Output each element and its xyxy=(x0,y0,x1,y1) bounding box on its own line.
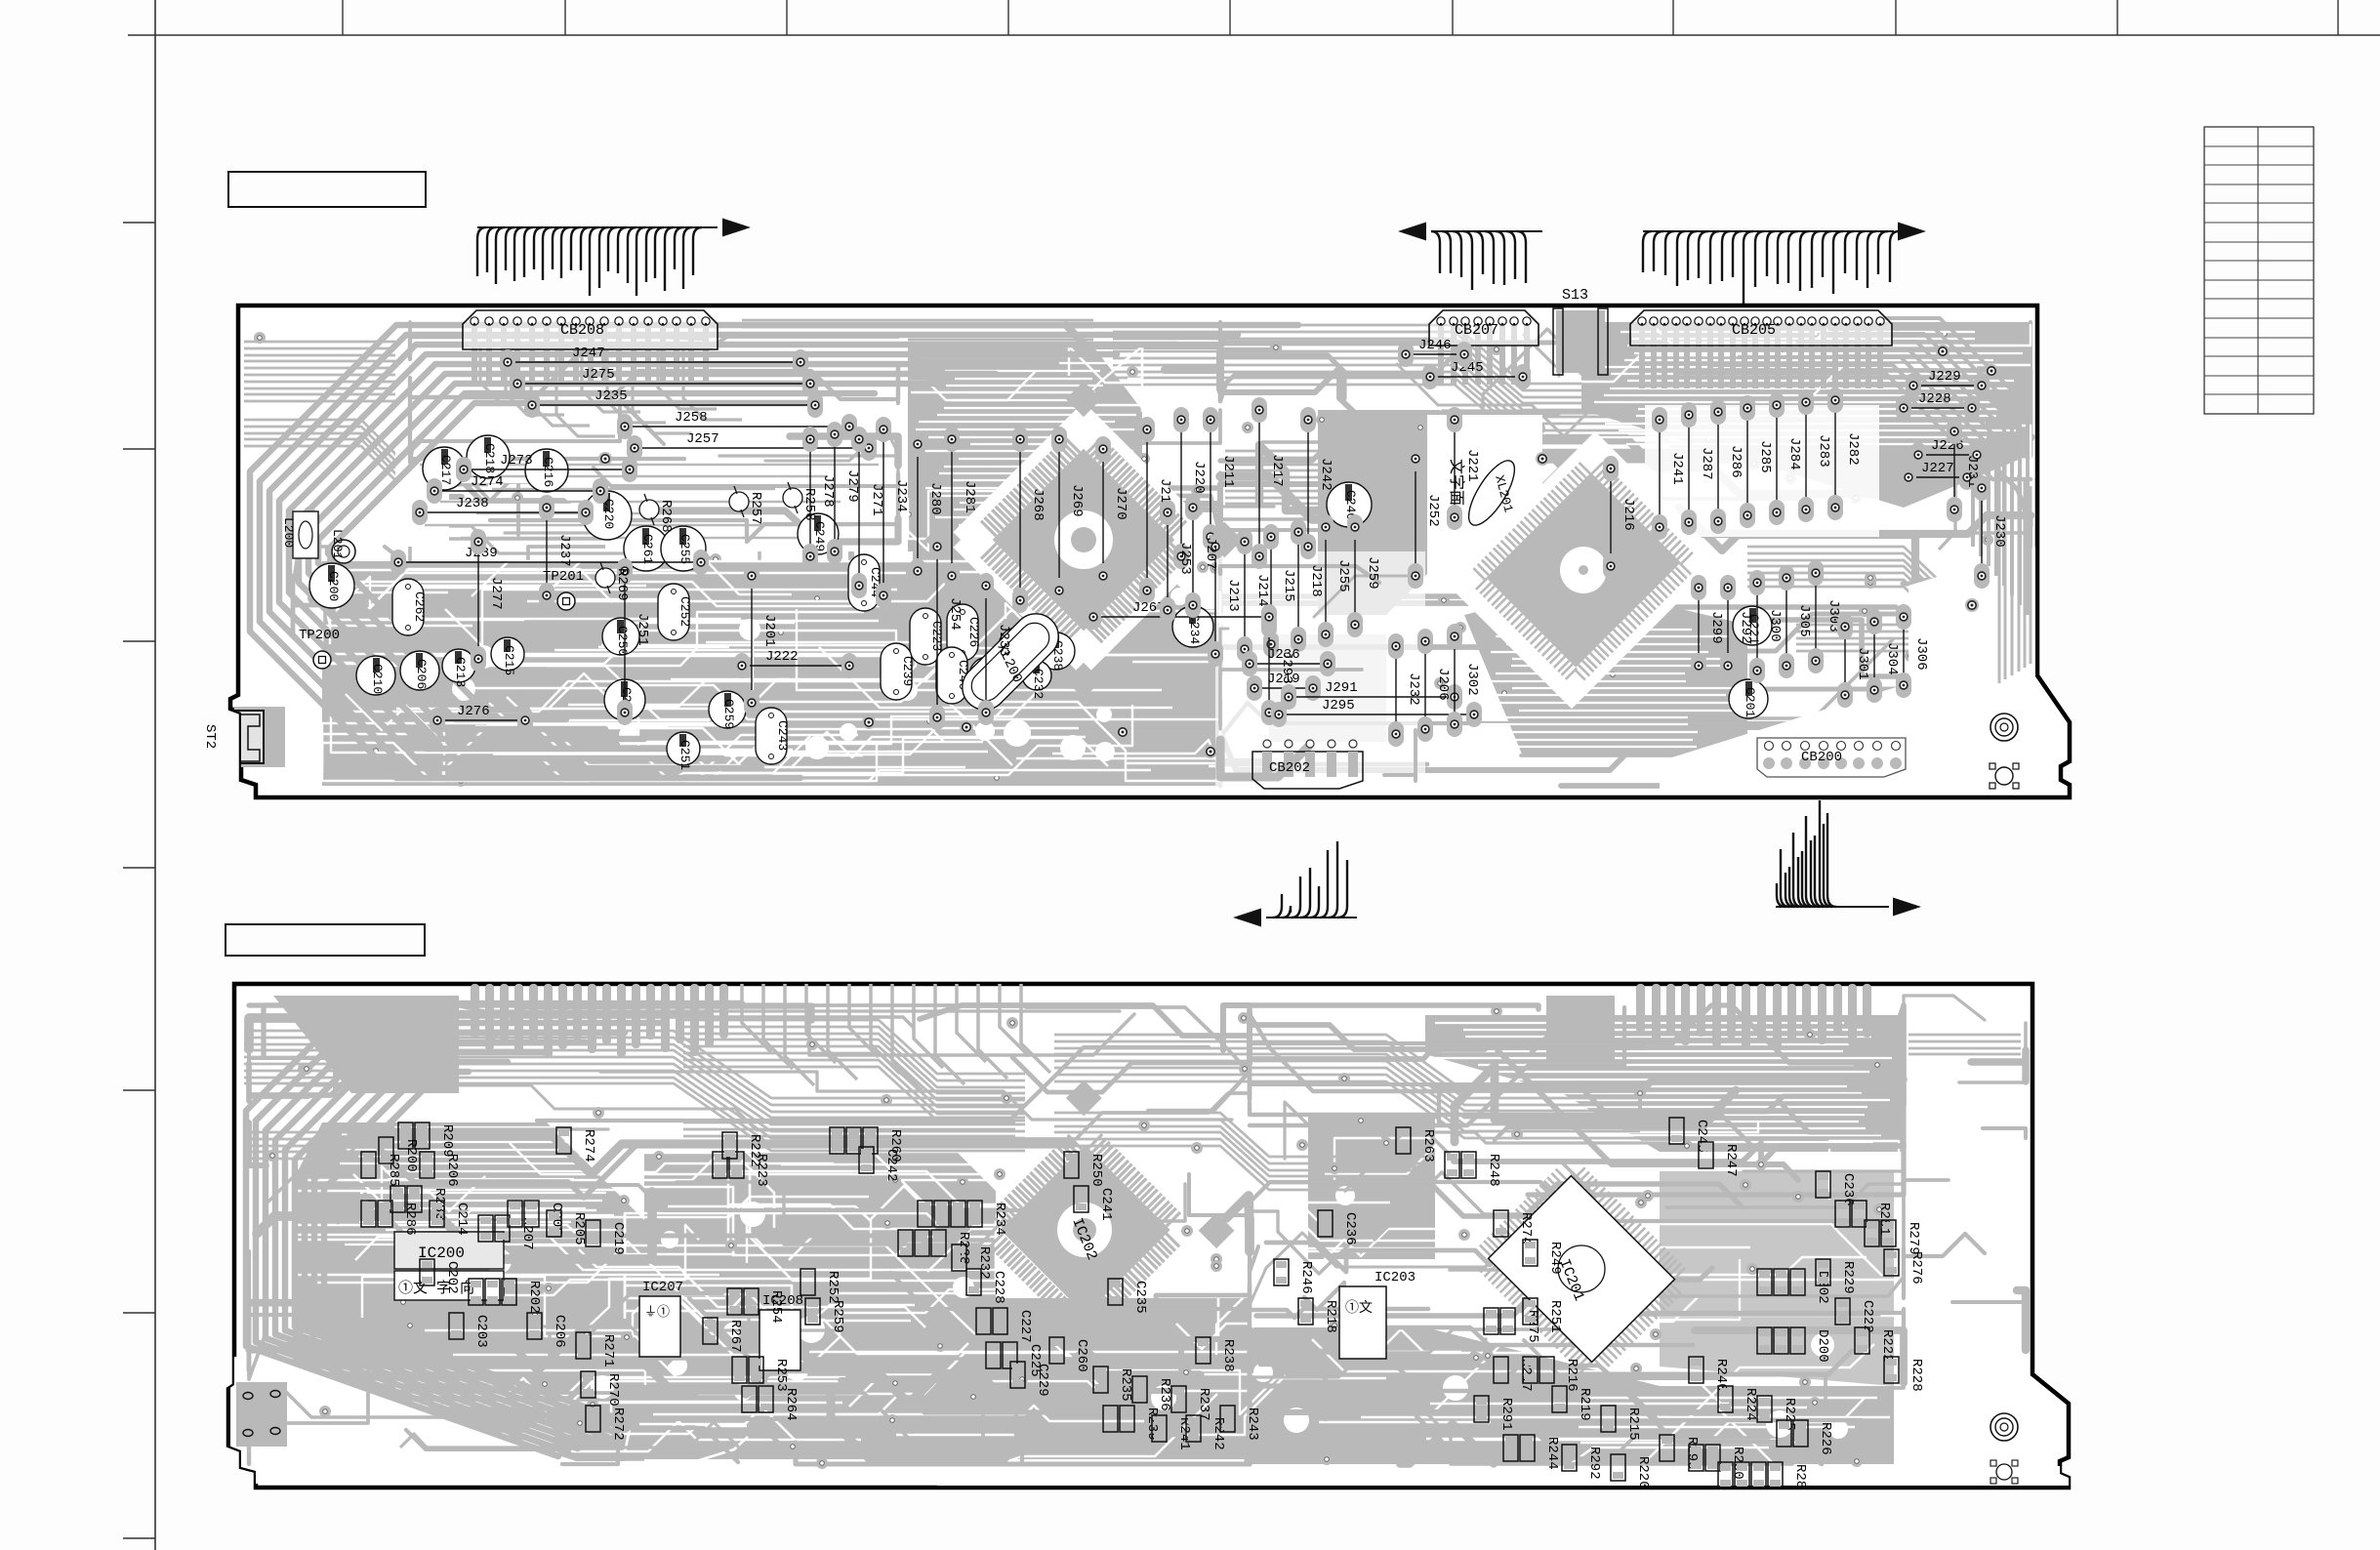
svg-text:R268: R268 xyxy=(658,500,674,533)
svg-text:C259: C259 xyxy=(721,699,736,729)
svg-text:R228: R228 xyxy=(1908,1359,1924,1392)
svg-text:IC207: IC207 xyxy=(642,1280,683,1295)
svg-text:C206: C206 xyxy=(552,1315,567,1348)
svg-text:L201: L201 xyxy=(330,529,345,559)
svg-text:J213: J213 xyxy=(1225,579,1241,612)
svg-text:C241: C241 xyxy=(1098,1188,1114,1221)
svg-text:J281: J281 xyxy=(962,480,977,513)
svg-text:J286: J286 xyxy=(1728,445,1744,478)
svg-text:J252: J252 xyxy=(1425,494,1441,527)
svg-text:R270: R270 xyxy=(605,1373,621,1407)
svg-text:J218: J218 xyxy=(1308,564,1324,597)
svg-text:R250: R250 xyxy=(1088,1154,1104,1187)
svg-text:R247: R247 xyxy=(1723,1144,1739,1177)
svg-text:J207: J207 xyxy=(1203,537,1218,570)
svg-text:R263: R263 xyxy=(1420,1129,1436,1162)
svg-text:R209: R209 xyxy=(439,1124,455,1158)
svg-text:C251: C251 xyxy=(677,740,692,770)
svg-text:CB205: CB205 xyxy=(1732,322,1776,339)
svg-text:R276: R276 xyxy=(1908,1251,1924,1285)
svg-text:C242: C242 xyxy=(883,1149,899,1182)
svg-text:J222: J222 xyxy=(765,649,799,665)
svg-text:C250: C250 xyxy=(615,626,630,656)
svg-text:J216: J216 xyxy=(1621,498,1636,531)
svg-text:J283: J283 xyxy=(1816,434,1831,468)
svg-text:J276: J276 xyxy=(457,704,490,719)
svg-text:R249: R249 xyxy=(1547,1242,1563,1275)
svg-text:J282: J282 xyxy=(1845,432,1861,466)
svg-text:CB208: CB208 xyxy=(560,322,604,339)
svg-text:R200: R200 xyxy=(403,1139,419,1172)
svg-text:C202: C202 xyxy=(444,1261,460,1294)
svg-text:C236: C236 xyxy=(1342,1212,1358,1245)
svg-text:J219: J219 xyxy=(1267,672,1300,687)
svg-text:S13: S13 xyxy=(1562,287,1588,304)
svg-text:J215: J215 xyxy=(1281,569,1296,602)
svg-text:①文: ①文 xyxy=(1345,1300,1373,1317)
svg-text:C213: C213 xyxy=(453,657,468,687)
svg-text:J279: J279 xyxy=(844,469,860,503)
svg-text:C243: C243 xyxy=(775,720,790,751)
svg-text:C215: C215 xyxy=(502,645,516,675)
svg-text:R258: R258 xyxy=(801,488,817,521)
svg-text:C201: C201 xyxy=(1743,687,1757,717)
svg-text:J299: J299 xyxy=(1708,611,1724,644)
svg-text:J251: J251 xyxy=(635,613,650,646)
svg-text:R222: R222 xyxy=(747,1134,762,1167)
svg-text:R205: R205 xyxy=(571,1212,587,1245)
svg-text:R235: R235 xyxy=(1118,1368,1133,1402)
svg-text:J302: J302 xyxy=(1464,663,1480,696)
svg-text:C200: C200 xyxy=(326,571,341,601)
svg-text:R292: R292 xyxy=(1586,1447,1602,1480)
svg-text:CB200: CB200 xyxy=(1801,750,1842,765)
svg-text:R218: R218 xyxy=(1323,1300,1338,1333)
svg-text:R264: R264 xyxy=(783,1388,799,1421)
svg-text:文字面: 文字面 xyxy=(1447,459,1465,506)
svg-text:J220: J220 xyxy=(1191,461,1207,494)
svg-text:TP200: TP200 xyxy=(299,628,340,643)
svg-text:R259: R259 xyxy=(830,1300,845,1333)
svg-text:J230: J230 xyxy=(1991,514,2007,548)
svg-text:J284: J284 xyxy=(1786,437,1802,470)
svg-text:C255: C255 xyxy=(677,534,692,564)
svg-text:L200: L200 xyxy=(281,517,296,548)
svg-text:R236: R236 xyxy=(1157,1378,1172,1411)
svg-text:R226: R226 xyxy=(1818,1422,1833,1455)
svg-text:J221: J221 xyxy=(1464,449,1480,482)
svg-text:R220: R220 xyxy=(1635,1456,1651,1489)
svg-text:J236: J236 xyxy=(1267,647,1300,663)
svg-text:ST2: ST2 xyxy=(202,724,218,749)
svg-text:J234: J234 xyxy=(893,479,909,512)
svg-text:⏚①: ⏚① xyxy=(644,1305,670,1320)
svg-text:C216: C216 xyxy=(541,457,555,487)
svg-text:J287: J287 xyxy=(1699,447,1714,480)
svg-text:R267: R267 xyxy=(727,1320,743,1353)
svg-text:D200: D200 xyxy=(1815,1329,1830,1363)
svg-text:J246: J246 xyxy=(1418,338,1452,353)
svg-text:R238: R238 xyxy=(1220,1339,1236,1372)
svg-text:J274: J274 xyxy=(471,474,504,490)
svg-text:J214: J214 xyxy=(1254,574,1270,607)
svg-text:C227: C227 xyxy=(1017,1310,1033,1343)
svg-text:J232: J232 xyxy=(1406,673,1421,706)
svg-text:D202: D202 xyxy=(1815,1271,1830,1304)
svg-text:R254: R254 xyxy=(768,1290,784,1324)
svg-text:J291: J291 xyxy=(1325,680,1358,696)
svg-text:C252: C252 xyxy=(677,596,692,627)
svg-text:J217: J217 xyxy=(1269,454,1285,487)
svg-text:C210: C210 xyxy=(370,664,385,694)
svg-text:R229: R229 xyxy=(1840,1261,1856,1294)
svg-text:J275: J275 xyxy=(582,367,615,383)
svg-text:J227: J227 xyxy=(1921,461,1954,476)
svg-text:C234: C234 xyxy=(1187,614,1202,644)
svg-text:C220: C220 xyxy=(601,499,616,529)
svg-text:C206: C206 xyxy=(414,659,429,689)
svg-text:J270: J270 xyxy=(1113,487,1128,520)
svg-text:J228: J228 xyxy=(1918,391,1951,407)
svg-text:R253: R253 xyxy=(773,1359,789,1392)
svg-text:C261: C261 xyxy=(640,534,655,564)
svg-text:R243: R243 xyxy=(1245,1407,1260,1441)
svg-text:R219: R219 xyxy=(1577,1388,1592,1421)
svg-text:J233: J233 xyxy=(996,624,1011,657)
svg-text:J254: J254 xyxy=(947,597,963,631)
svg-text:R291: R291 xyxy=(1498,1398,1514,1431)
svg-text:①文 字 向: ①文 字 向 xyxy=(398,1280,474,1297)
svg-text:J304: J304 xyxy=(1884,642,1900,675)
svg-text:C262: C262 xyxy=(412,591,427,622)
svg-text:CB202: CB202 xyxy=(1269,760,1310,776)
svg-text:R286: R286 xyxy=(402,1203,418,1236)
svg-text:C239: C239 xyxy=(900,656,915,686)
svg-text:C228: C228 xyxy=(991,1271,1006,1304)
svg-text:J247: J247 xyxy=(572,346,605,361)
svg-text:R224: R224 xyxy=(1743,1388,1758,1421)
svg-text:R248: R248 xyxy=(1486,1154,1501,1187)
svg-text:J300: J300 xyxy=(1767,609,1783,642)
svg-text:J280: J280 xyxy=(927,482,943,515)
svg-text:IC203: IC203 xyxy=(1375,1270,1416,1285)
svg-text:C260: C260 xyxy=(1074,1339,1089,1372)
svg-text:J255: J255 xyxy=(1335,559,1351,592)
svg-text:J201: J201 xyxy=(761,614,777,647)
svg-text:J268: J268 xyxy=(1030,488,1046,521)
svg-text:J277: J277 xyxy=(488,577,504,610)
svg-text:R244: R244 xyxy=(1544,1437,1560,1470)
svg-text:C219: C219 xyxy=(610,1222,626,1255)
svg-text:C214: C214 xyxy=(454,1203,470,1236)
svg-text:J235: J235 xyxy=(595,388,628,404)
svg-text:J271: J271 xyxy=(869,483,884,516)
svg-text:J257: J257 xyxy=(686,431,719,447)
svg-text:TP201: TP201 xyxy=(543,569,584,585)
svg-text:C232: C232 xyxy=(1031,669,1046,699)
svg-text:J295: J295 xyxy=(1322,698,1355,714)
svg-text:R269: R269 xyxy=(614,568,630,601)
svg-text:R206: R206 xyxy=(444,1154,460,1187)
svg-text:R285: R285 xyxy=(386,1154,401,1187)
svg-text:R257: R257 xyxy=(748,492,763,525)
svg-text:R274: R274 xyxy=(581,1129,596,1162)
svg-text:J305: J305 xyxy=(1796,604,1812,637)
svg-text:J292: J292 xyxy=(1738,611,1753,644)
svg-text:R202: R202 xyxy=(526,1281,542,1314)
svg-text:C217: C217 xyxy=(438,455,453,485)
svg-text:J238: J238 xyxy=(456,496,489,511)
svg-text:J241: J241 xyxy=(1669,452,1685,485)
svg-text:R246: R246 xyxy=(1298,1261,1314,1294)
svg-text:R242: R242 xyxy=(1211,1417,1226,1450)
svg-text:J237: J237 xyxy=(556,534,572,567)
svg-text:C235: C235 xyxy=(1132,1281,1148,1314)
svg-text:J285: J285 xyxy=(1757,440,1773,473)
svg-text:J258: J258 xyxy=(675,410,708,426)
svg-text:R215: R215 xyxy=(1625,1407,1641,1441)
svg-text:J259: J259 xyxy=(1365,556,1380,590)
svg-text:J273: J273 xyxy=(500,453,533,469)
svg-text:R234: R234 xyxy=(992,1203,1007,1236)
svg-text:J301: J301 xyxy=(1855,647,1870,680)
svg-text:J211: J211 xyxy=(1220,455,1236,488)
svg-text:C226: C226 xyxy=(966,617,981,647)
svg-text:R251: R251 xyxy=(1547,1300,1563,1333)
svg-text:J242: J242 xyxy=(1318,458,1334,491)
svg-text:R271: R271 xyxy=(600,1334,616,1367)
svg-text:J229: J229 xyxy=(1928,369,1961,385)
svg-text:R272: R272 xyxy=(610,1407,626,1441)
svg-text:C203: C203 xyxy=(473,1315,489,1348)
svg-text:C229: C229 xyxy=(1035,1364,1050,1397)
svg-text:J306: J306 xyxy=(1913,637,1929,671)
svg-text:J253: J253 xyxy=(1177,542,1193,575)
svg-text:R252: R252 xyxy=(825,1271,841,1304)
svg-text:R279: R279 xyxy=(1906,1222,1921,1255)
svg-text:J206: J206 xyxy=(1435,668,1451,701)
svg-text:J278: J278 xyxy=(820,474,836,508)
svg-text:CB207: CB207 xyxy=(1455,322,1498,339)
svg-text:J269: J269 xyxy=(1069,484,1085,517)
